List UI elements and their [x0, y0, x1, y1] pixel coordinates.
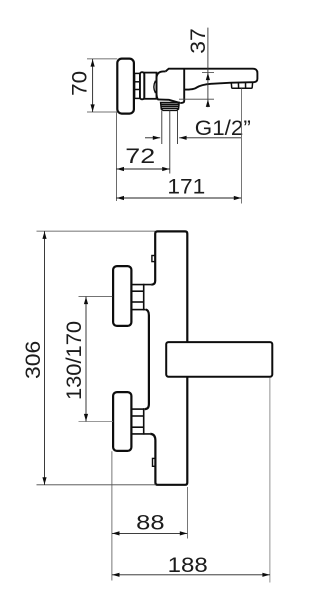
handle upper (front view)	[113, 266, 131, 326]
dimension 70 extension line top	[87, 58, 117, 60]
dimension 37 extension tick bottom	[179, 98, 214, 100]
wall face extension line (left of 72/171)	[115, 113, 117, 202]
spout end extension line (right of 188)	[269, 378, 271, 583]
body edge extension line (right of 88)	[186, 487, 188, 539]
temperature ring arc detail	[154, 81, 156, 93]
handle face extension line (left of 88/188)	[111, 451, 113, 580]
dimension G1/2 line left segment with arrow	[145, 136, 160, 140]
dimension 171 line with arrows	[116, 196, 241, 200]
escutcheon wall plate (side view)	[117, 59, 134, 114]
dimension 188 line with arrows	[112, 573, 270, 577]
svg-text:37: 37	[186, 28, 210, 54]
dimension 37 arrow upper	[206, 73, 210, 80]
connector piece between plate and body	[135, 73, 140, 98]
aerator at spout tip	[231, 82, 252, 88]
dimension 306 extension line top	[37, 230, 156, 232]
dimension G1/2 line right segment with arrow	[179, 136, 241, 140]
valve body right edge (joint to spout)	[180, 69, 184, 103]
dimension 130/170 line with arrows	[84, 297, 88, 422]
body column lower-right outline	[150, 377, 187, 485]
handle lower stem	[131, 408, 150, 434]
svg-text:306: 306	[21, 341, 45, 379]
dimension 70 extension line bottom	[87, 111, 117, 113]
main valve body (side view)	[157, 71, 166, 99]
dimension 37 extension tick top	[202, 71, 214, 73]
dimension 70 line with arrows	[91, 59, 95, 112]
svg-text:130/170: 130/170	[62, 321, 86, 400]
clip notch upper	[152, 256, 155, 262]
valve body rear section	[144, 73, 156, 99]
spout (side view)	[166, 69, 258, 90]
outlet pipe line right	[177, 110, 179, 144]
svg-text:88: 88	[136, 510, 164, 534]
dimension 37 arrow lower	[206, 100, 210, 107]
dimension 306 line with arrows	[42, 231, 46, 484]
spout (front view)	[166, 342, 272, 377]
outlet pipe line left	[161, 110, 163, 144]
svg-text:72: 72	[125, 144, 155, 168]
clip notch lower	[153, 458, 156, 466]
body upper-left shoulder	[151, 281, 155, 285]
svg-text:188: 188	[168, 553, 208, 577]
handle lower (front view)	[113, 392, 131, 451]
svg-text:171: 171	[167, 174, 205, 198]
body underside slope into outlet	[158, 99, 180, 103]
dimension 130/170 extension line top	[79, 296, 113, 298]
outlet centre extension line (right of 171)	[240, 89, 242, 204]
body column upper outline	[155, 231, 187, 342]
dimension 72 line with arrows	[116, 167, 169, 171]
collar ring	[140, 72, 144, 99]
svg-text:G1/2”: G1/2”	[195, 116, 251, 140]
dimension 88 line with arrows	[112, 531, 187, 535]
svg-text:70: 70	[68, 71, 92, 96]
dimension 130/170 extension line bottom	[79, 421, 114, 423]
outlet pipe centre line	[169, 110, 171, 173]
dimension 37 vertical line	[207, 28, 209, 108]
body mid-left edge	[145, 310, 149, 410]
dimension 306 extension line bottom	[37, 484, 157, 486]
handle upper stem	[132, 284, 152, 311]
threaded outlet G1/2	[161, 103, 180, 111]
